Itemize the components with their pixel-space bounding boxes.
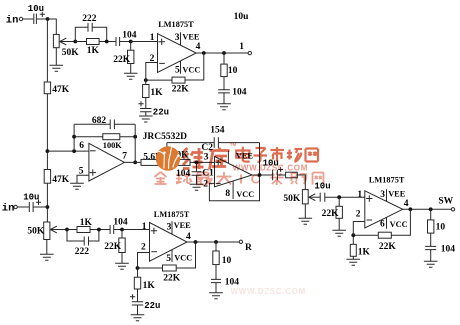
capacitor 104 series R (110, 225, 114, 234)
svg-text:6: 6 (79, 141, 84, 151)
svg-text:3: 3 (175, 33, 180, 43)
wire node D1 to op-amp U1 pin1 (131, 41, 158, 43)
svg-text:SW: SW (438, 196, 453, 206)
resistor 22K feedback U5 (163, 265, 177, 271)
svg-text:104: 104 (113, 218, 128, 228)
svg-text:7: 7 (122, 151, 127, 161)
svg-text:6: 6 (380, 220, 385, 230)
ground 1K U4 (347, 259, 361, 265)
wire 22K to ground (121, 253, 123, 264)
node D2 (120, 228, 124, 232)
svg-text:50K: 50K (283, 194, 301, 204)
svg-text:in: in (2, 203, 15, 215)
svg-text:1: 1 (239, 42, 244, 52)
wire node B1 to 1K (75, 41, 86, 43)
wire zobel L down (223, 53, 225, 64)
resistor 10K filter (172, 159, 190, 165)
node M1 C1 tap (195, 161, 199, 165)
wire pot L bottom to ground (55, 48, 57, 66)
wire node G1 to U1 pin2 (146, 63, 158, 81)
op-amp U4 pin3 VEE stub (386, 189, 388, 201)
svg-text:VEE: VEE (174, 221, 192, 230)
node P1 U4 input (337, 195, 341, 199)
resistor 47K lower (44, 170, 50, 184)
svg-text:3: 3 (167, 222, 172, 232)
svg-text:10u: 10u (234, 12, 250, 22)
wire 22K fb to node G2 (138, 267, 163, 269)
wire C1 to ground (196, 175, 198, 184)
ground zobel SW (424, 261, 438, 267)
svg-text:5: 5 (175, 66, 180, 76)
capacitor 104 zobel L (218, 90, 230, 93)
svg-text:1K: 1K (150, 88, 163, 98)
wire U5 feedback down (176, 242, 195, 268)
watermark text WeiKu big characters (183, 148, 204, 169)
wire 1K to cap 104 L (99, 41, 116, 43)
svg-text:LM1875T: LM1875T (158, 20, 194, 29)
wire node S1 to U4 pin2 (353, 222, 365, 236)
wire 5.6K to node X (158, 161, 172, 163)
svg-text:VCC: VCC (390, 220, 408, 229)
svg-text:22K: 22K (322, 209, 340, 219)
node B2 (65, 228, 69, 232)
svg-text:22u: 22u (153, 108, 169, 118)
resistor 22K input R (119, 238, 125, 253)
node out-L terminal (248, 51, 251, 54)
node out-SW terminal (451, 208, 454, 211)
svg-text:5: 5 (166, 254, 171, 264)
svg-text:10: 10 (436, 222, 446, 232)
op-amp U5 LM1875T (150, 223, 188, 262)
wire wiper to node B1 (60, 41, 76, 43)
node A1 (46, 17, 50, 21)
resistor 1K to ground U1 (143, 85, 149, 98)
ground pot SW (299, 218, 313, 224)
op-amp U5 pin3 VEE stub (171, 221, 173, 234)
capacitor 104 zobel R (211, 279, 221, 282)
wire U4 feedback down (391, 209, 410, 235)
capacitor 22u U1 (138, 101, 143, 106)
wire fb right vertical (134, 124, 136, 162)
svg-text:IC: IC (239, 171, 268, 186)
resistor 10 zobel R (213, 251, 219, 265)
op-amp U1 pin5 VCC stub (180, 61, 182, 74)
potentiometer 50K SW body (302, 190, 308, 204)
wire cap to rail node (33, 206, 47, 208)
node B1 (73, 40, 77, 44)
svg-text:22K: 22K (379, 242, 397, 252)
node F1 zobel tap (222, 51, 226, 55)
wire U3 output (252, 174, 272, 176)
svg-text:47K: 47K (52, 175, 70, 185)
svg-text:4: 4 (404, 199, 409, 209)
svg-text:1K: 1K (87, 46, 100, 56)
op-amp U4 pin6 VCC stub (386, 217, 388, 229)
svg-text:104: 104 (122, 30, 137, 40)
wire in-L to cap (23, 18, 34, 20)
svg-text:3: 3 (204, 153, 209, 163)
svg-text:VEE: VEE (182, 33, 200, 42)
svg-text:10u: 10u (314, 181, 330, 191)
wire U3 pin2 unity feedback loop (209, 175, 259, 201)
node H1 summing (46, 149, 50, 153)
pot SW wiper arrow (309, 194, 316, 201)
ground zobel R (209, 293, 223, 299)
svg-text:R: R (245, 243, 252, 253)
resistor 22K input SW (336, 206, 342, 218)
svg-text:22K: 22K (172, 84, 190, 94)
wire node D2 down to 22K (121, 230, 123, 239)
node in-L terminal (19, 17, 22, 20)
wire cap to node P1 (325, 196, 365, 198)
capacitor 10u input L (34, 14, 37, 24)
capacitor 682 feedback row (74, 123, 135, 125)
resistor 100K feedback (74, 136, 135, 138)
wire 22u to ground (145, 112, 147, 116)
resistor 1K to ground U4 (350, 244, 356, 256)
op-amp U3 pin4 VEE stub (227, 151, 229, 164)
capacitor 104 zobel SW (425, 246, 436, 249)
wire 104 to ground (430, 250, 432, 262)
wire 104 to node D2 (114, 229, 150, 231)
capacitor 22u U5 (130, 294, 135, 299)
wire wiper to cap 10u (309, 196, 320, 198)
wire summing node to U2 pin6 (47, 150, 89, 152)
ground 22K input L (124, 73, 138, 79)
op-amp U3 pin8 VCC stub (232, 181, 234, 199)
ground pot L (50, 65, 64, 71)
capacitor 104 C1 to ground (196, 162, 198, 171)
op-amp U1 pin3 VEE stub (180, 32, 182, 45)
ground U2 pin5 (70, 183, 84, 189)
svg-text:22K: 22K (104, 242, 122, 252)
svg-text:3: 3 (380, 190, 385, 200)
wire 22u to ground (137, 305, 139, 315)
watermark logo circle (156, 145, 180, 171)
node S1 (351, 233, 355, 237)
node D1 (129, 40, 133, 44)
svg-text:TM: TM (230, 142, 237, 147)
svg-text:LM1875T: LM1875T (369, 175, 405, 184)
resistor 1K to ground U5 (134, 277, 140, 289)
ground 22K input R (115, 263, 129, 269)
wire cap to node A1 (37, 18, 48, 20)
svg-text:4: 4 (186, 232, 191, 242)
op-amp U5 pin5 VCC stub (171, 250, 173, 262)
watermark text DianZiShiChangWang characters (236, 147, 318, 162)
svg-text:in: in (6, 14, 19, 26)
wire 10 to cap 104 zobel L (223, 77, 225, 90)
op-amp U3 JRC5532D unit A (215, 156, 253, 186)
wire 22K to ground (130, 64, 132, 74)
svg-text:2: 2 (141, 243, 146, 253)
wire U1 feedback down (185, 53, 204, 80)
svg-text:VCC: VCC (174, 254, 192, 263)
wire 1K to cap 22u R (137, 289, 139, 302)
resistor series sub (286, 172, 298, 178)
svg-text:VCC: VCC (236, 190, 254, 199)
capacitor 10u input R (29, 202, 33, 212)
wire left rail lower (46, 183, 48, 222)
pot L wiper arrow (60, 38, 67, 45)
wire U4 output to terminal SW (403, 208, 452, 210)
svg-text:154: 154 (210, 126, 225, 136)
node F2 zobel tap R (214, 240, 218, 244)
potentiometer 50K L body (53, 34, 59, 47)
wire C2 row right down to U3 output (259, 143, 261, 175)
wire pot SW to ground (304, 204, 306, 218)
svg-text:22K: 22K (113, 55, 131, 65)
capacitor 222 parallel R loop (67, 230, 99, 242)
ground 22u U5 (131, 315, 145, 321)
node C1L (105, 40, 109, 44)
wire node G2 to 1K (137, 268, 139, 277)
ground C1 (190, 184, 204, 190)
svg-text:VCC: VCC (182, 65, 200, 74)
node C2R (97, 228, 101, 232)
svg-text:100K: 100K (103, 141, 122, 150)
op-amp U1 LM1875T (158, 34, 197, 73)
svg-text:1K: 1K (143, 281, 156, 291)
capacitor 10u sub 2 (320, 193, 325, 202)
ground 22K input SW (332, 230, 346, 236)
watermark slogan characters row (155, 172, 232, 185)
pot R wiper arrow (50, 226, 57, 233)
svg-text:1: 1 (142, 222, 147, 232)
node G1 (144, 78, 148, 82)
resistor 1K series R (77, 227, 90, 233)
node J1 100K row left (72, 135, 76, 139)
wire resistor to pot SW top (297, 175, 305, 190)
node K1 100K row right (133, 135, 137, 139)
wire left rail upper (46, 19, 48, 82)
wire left rail middle (46, 94, 48, 170)
capacitor 154 C2 feedback (167, 142, 260, 144)
node Q1 output U4 (409, 207, 413, 211)
wire 10 to cap 104 zobel SW (430, 233, 432, 246)
wire node B2 to 1K (67, 229, 77, 231)
wire cap to series resistor (278, 174, 286, 176)
potentiometer 50K R body (44, 222, 50, 240)
svg-text:47K: 47K (52, 85, 70, 95)
svg-text:222: 222 (82, 14, 97, 24)
node in-R terminal (14, 205, 17, 208)
node E1 output U1 (202, 51, 206, 55)
ground pot R (40, 254, 54, 260)
svg-text:50K: 50K (62, 48, 80, 58)
resistor 22K feedback U1 (172, 77, 185, 83)
resistor 1K series L (87, 39, 100, 45)
wire U1 output to terminal 1 (196, 52, 248, 54)
wire 104 to ground (215, 283, 217, 293)
svg-text:50K: 50K (27, 226, 45, 236)
svg-text:222: 222 (75, 247, 90, 257)
svg-text:LM1875T: LM1875T (154, 210, 190, 219)
wire 22K fb to node G1 (146, 79, 172, 81)
svg-text:2: 2 (356, 209, 361, 219)
wire 10 to cap 104 zobel R (215, 265, 217, 280)
op-amp U4 LM1875T (365, 191, 403, 228)
svg-text:VEE: VEE (388, 189, 406, 198)
svg-text:10u: 10u (28, 4, 44, 14)
capacitor 10u sub coupling (273, 170, 278, 181)
wire 22K to ground (338, 218, 340, 230)
capacitor 104 series L (116, 37, 120, 46)
wire node X up to C2 row (166, 143, 168, 163)
wire node S1 to 1K (352, 235, 354, 244)
node N1 U3 output (258, 173, 262, 177)
wire zobel R down (215, 242, 217, 251)
wire node G2 to U5 pin2 (138, 253, 150, 269)
node E2 output U5 (194, 240, 198, 244)
wire zobel SW down (430, 209, 432, 220)
svg-text:22u: 22u (144, 301, 160, 311)
ground zobel L (217, 104, 231, 110)
svg-text:8: 8 (225, 189, 230, 199)
resistor 22K feedback U4 (378, 232, 391, 238)
op-amp U2 JRC5532D unit B (89, 143, 125, 181)
svg-text:104: 104 (232, 88, 247, 98)
svg-text:1: 1 (150, 33, 155, 43)
resistor 10 zobel L (221, 64, 227, 77)
resistor 10 zobel SW (428, 220, 434, 233)
svg-text:WWW.DZSC.COM: WWW.DZSC.COM (231, 287, 307, 296)
wire node D1 down to 22K (130, 42, 132, 51)
wire U2 pin5 to ground (77, 175, 89, 183)
svg-text:682: 682 (92, 116, 107, 126)
wire 1K to cap 22u (145, 98, 147, 109)
wire 104 to ground (223, 93, 225, 104)
resistor 47K upper (44, 82, 50, 94)
wire 10K to U3 pin3 (190, 161, 215, 163)
capacitor 222 parallel L loop (75, 27, 106, 41)
node R1 zobel tap SW (429, 207, 433, 211)
svg-text:JRC5532D: JRC5532D (143, 132, 187, 142)
wire node A1 to pot 50K L (48, 19, 57, 34)
node out-R terminal (239, 240, 242, 243)
wire 1K to cap 104 R (90, 229, 110, 231)
wire in-R to cap (17, 206, 29, 208)
wire U2 out to resistor 5.6K (124, 161, 141, 163)
svg-text:1K: 1K (80, 218, 93, 228)
wire 1K to ground (352, 256, 354, 259)
node L1 U2 output (133, 161, 137, 165)
resistor 22K input L (128, 50, 134, 63)
wire pot R bottom to ground (46, 240, 48, 255)
node in-R rail junction (46, 205, 50, 209)
resistor 5.6K filter (141, 159, 158, 165)
node I1 fb tap (72, 149, 76, 153)
ground 22u U1 (139, 116, 153, 122)
wire 22K fb to node S1 (353, 234, 378, 236)
wire node P1 to 22K (338, 197, 340, 206)
svg-text:22K: 22K (163, 273, 181, 283)
wire U5 output to terminal R (187, 241, 239, 243)
wire fb left vertical (73, 124, 75, 151)
svg-text:1: 1 (357, 190, 362, 200)
wire node G1 to 1K (145, 80, 147, 84)
svg-text:1K: 1K (358, 247, 371, 257)
node G2 (136, 266, 140, 270)
wire wiper to node B2 (50, 229, 67, 231)
svg-text:4: 4 (196, 42, 201, 52)
wire 104 to node D1 (120, 41, 131, 43)
node X filter (165, 161, 169, 165)
svg-text:10: 10 (228, 66, 238, 76)
svg-text:10u: 10u (23, 193, 39, 203)
svg-text:10: 10 (222, 256, 232, 266)
svg-text:104: 104 (441, 245, 456, 255)
